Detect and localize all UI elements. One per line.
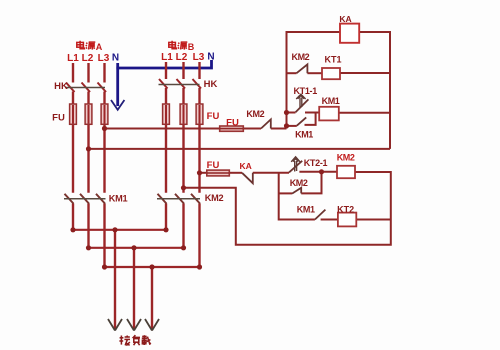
svg-text:KM1: KM1 (297, 205, 315, 215)
svg-text:L2: L2 (176, 52, 188, 63)
svg-text:A: A (96, 42, 103, 52)
svg-text:KM1: KM1 (322, 96, 340, 106)
svg-text:B: B (188, 42, 195, 52)
svg-text:KT2-1: KT2-1 (304, 158, 328, 168)
svg-text:KT1: KT1 (324, 55, 341, 65)
svg-text:KM1: KM1 (109, 194, 128, 204)
svg-text:FU: FU (207, 111, 220, 122)
svg-text:KT1-1: KT1-1 (293, 86, 317, 96)
svg-text:KM2: KM2 (291, 52, 309, 62)
svg-text:L2: L2 (82, 53, 94, 64)
svg-text:HK: HK (204, 79, 218, 90)
svg-text:KM2: KM2 (337, 152, 355, 162)
svg-text:FU: FU (226, 117, 239, 128)
svg-text:L3: L3 (193, 52, 205, 63)
svg-text:KA: KA (339, 14, 351, 24)
svg-text:L1: L1 (161, 52, 173, 63)
svg-text:FU: FU (52, 113, 65, 124)
svg-text:KT2: KT2 (337, 204, 354, 214)
svg-text:KM1: KM1 (295, 130, 313, 140)
svg-text:KA: KA (240, 161, 252, 171)
svg-text:KM2: KM2 (246, 109, 264, 119)
svg-text:L1: L1 (67, 53, 79, 64)
svg-text:FU: FU (207, 160, 220, 171)
svg-text:L3: L3 (98, 53, 110, 64)
svg-text:N: N (112, 53, 119, 64)
svg-text:KM2: KM2 (290, 178, 308, 188)
svg-text:HK: HK (54, 81, 68, 92)
svg-text:KM2: KM2 (205, 193, 224, 203)
svg-text:N: N (207, 52, 214, 63)
